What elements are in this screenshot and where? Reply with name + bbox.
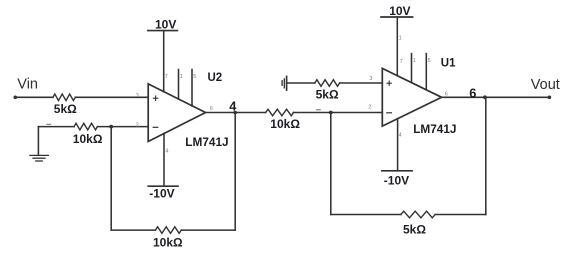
power -10V rail U1 bbox=[382, 170, 412, 172]
wire U2 pin 4 power stem bbox=[163, 133, 165, 186]
svg-text:5: 5 bbox=[193, 74, 196, 80]
junction node 6 feedback tap bbox=[483, 95, 487, 99]
wire U1 pin 7 power stem bbox=[396, 17, 398, 75]
junction at U2 inverting input bbox=[109, 125, 113, 129]
svg-text:6: 6 bbox=[210, 106, 213, 112]
node Vin terminal dot bbox=[14, 96, 18, 100]
wire U1 pin 4 power stem bbox=[397, 119, 399, 171]
svg-text:2: 2 bbox=[136, 122, 139, 128]
wire R5 to U1 pin 3 bbox=[340, 82, 383, 84]
wire U2 pin 5 stub bbox=[191, 70, 193, 107]
svg-text:Vin: Vin bbox=[17, 76, 38, 92]
wire U1 output bbox=[442, 96, 550, 98]
power -10V rail U2 bbox=[148, 185, 178, 187]
svg-text:2: 2 bbox=[368, 104, 371, 110]
svg-text:5kΩ: 5kΩ bbox=[316, 87, 339, 101]
svg-text:10V: 10V bbox=[155, 17, 176, 31]
resistor R6 5k ohm feedback bbox=[401, 211, 435, 218]
junction node 4 feedback tap bbox=[233, 111, 237, 115]
wire U1 feedback bottom right bbox=[435, 214, 486, 216]
ground G1 bbox=[30, 127, 48, 161]
wire U1 feedback bottom left bbox=[331, 214, 401, 216]
svg-text:1: 1 bbox=[399, 36, 402, 42]
junction at U1 inverting input bbox=[329, 111, 333, 115]
svg-text:-10V: -10V bbox=[384, 174, 409, 188]
svg-text:1: 1 bbox=[413, 58, 416, 64]
op-amp U2 minus input symbol bbox=[153, 126, 158, 128]
svg-text:LM741J: LM741J bbox=[413, 122, 456, 136]
wire U2 pin 7 power stem bbox=[163, 31, 165, 92]
svg-text:1: 1 bbox=[180, 74, 183, 80]
wire R4 to U1 pin 2 bbox=[294, 112, 383, 114]
svg-text:3: 3 bbox=[369, 76, 372, 82]
resistor R2 10k ohm bbox=[74, 123, 97, 130]
wire Vin to R1 bbox=[15, 96, 53, 98]
wire R2 to U2 pin 2 bbox=[97, 126, 148, 128]
resistor R5 5k ohm bbox=[315, 80, 340, 87]
wire U1 pin 1 stub bbox=[411, 54, 413, 82]
wire ground G2 to R5 bbox=[287, 82, 315, 84]
resistor R3 10k ohm feedback bbox=[155, 227, 181, 234]
wire U1 pin 5 stub bbox=[425, 54, 427, 90]
op-amp U1 plus input symbol bbox=[387, 81, 391, 85]
op-amp U2 plus input symbol bbox=[153, 96, 157, 100]
node Vout terminal dot bbox=[548, 96, 552, 100]
svg-text:7: 7 bbox=[165, 74, 168, 80]
svg-text:5: 5 bbox=[428, 58, 431, 64]
svg-text:5kΩ: 5kΩ bbox=[403, 222, 426, 236]
wire U1 feedback right leg bbox=[485, 97, 487, 214]
wire R1 to U2 pin 3 bbox=[75, 96, 148, 98]
svg-text:10kΩ: 10kΩ bbox=[73, 132, 103, 146]
wire U1 feedback left leg bbox=[330, 113, 332, 215]
power +10V rail U2 bbox=[148, 30, 178, 32]
wire U2 feedback bottom left bbox=[111, 229, 155, 231]
op-amp U1 minus input symbol bbox=[387, 112, 392, 114]
op-amp U1 triangle bbox=[382, 68, 441, 126]
tick mark on U2 inverting wire bbox=[47, 123, 51, 125]
svg-text:5kΩ: 5kΩ bbox=[54, 102, 77, 116]
wire U2 pin 1 stub bbox=[178, 70, 180, 100]
svg-text:U1: U1 bbox=[441, 58, 456, 70]
svg-text:10kΩ: 10kΩ bbox=[270, 117, 300, 131]
svg-text:6: 6 bbox=[445, 91, 448, 97]
wire ground to R2 bbox=[38, 126, 74, 128]
svg-text:10V: 10V bbox=[389, 4, 410, 18]
resistor R4 10k ohm coupling bbox=[266, 109, 294, 116]
wire U2 output to R4 bbox=[206, 112, 266, 114]
power +10V rail U1 bbox=[381, 16, 413, 18]
wire U2 feedback left leg bbox=[110, 127, 112, 231]
svg-text:4: 4 bbox=[165, 149, 168, 155]
ground G2 sideways bbox=[282, 76, 287, 90]
svg-text:LM741J: LM741J bbox=[185, 135, 228, 149]
wire U2 feedback bottom right bbox=[181, 229, 235, 231]
svg-text:4: 4 bbox=[399, 133, 402, 139]
svg-text:U2: U2 bbox=[208, 72, 223, 84]
svg-text:3: 3 bbox=[136, 93, 139, 99]
svg-text:-10V: -10V bbox=[149, 186, 174, 200]
resistor R1 5k ohm bbox=[53, 94, 75, 101]
svg-text:7: 7 bbox=[400, 59, 403, 65]
svg-text:10kΩ: 10kΩ bbox=[153, 236, 183, 250]
svg-text:6: 6 bbox=[469, 86, 476, 101]
wire U2 feedback right leg bbox=[234, 113, 236, 231]
tick mark on U1 inverting wire bbox=[317, 109, 321, 111]
svg-text:Vout: Vout bbox=[531, 77, 560, 93]
op-amp U2 triangle bbox=[148, 84, 205, 142]
